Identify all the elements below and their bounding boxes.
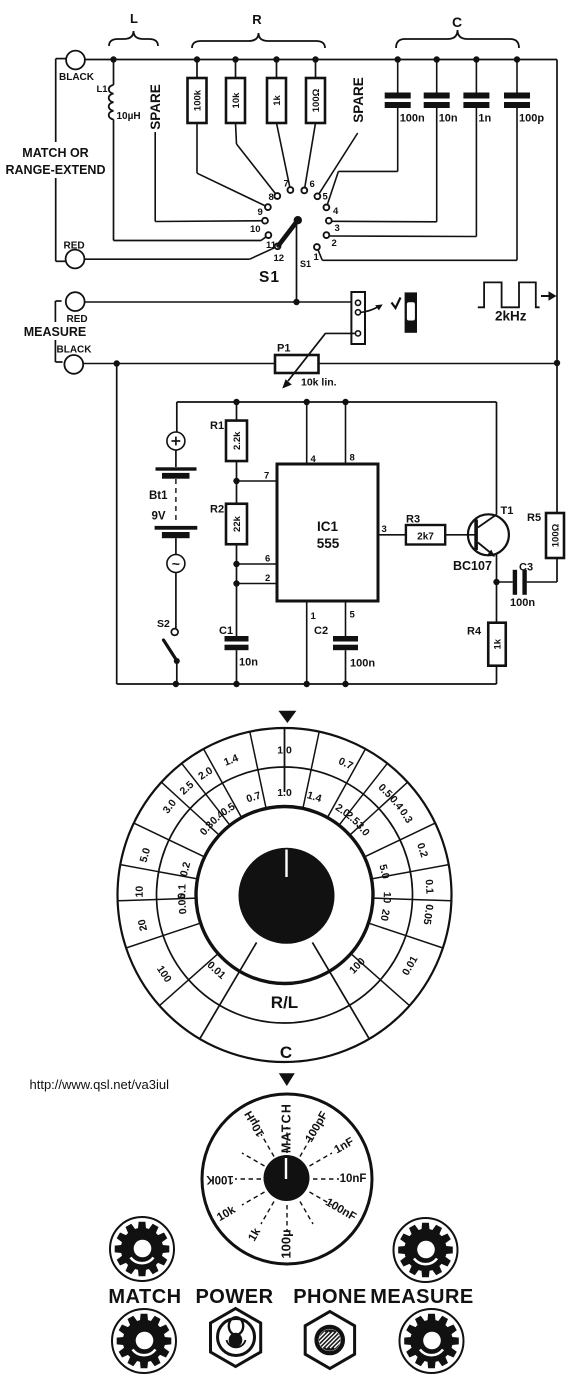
wire top bus <box>85 59 557 61</box>
wire spare-right to contact 5 <box>317 133 357 196</box>
svg-text:SPARE: SPARE <box>148 84 163 130</box>
wire pin 8 <box>342 399 348 405</box>
svg-text:RED: RED <box>67 314 88 325</box>
svg-text:10: 10 <box>250 224 261 235</box>
wire spare-left to contact 10 <box>154 132 156 217</box>
svg-text:10nF: 10nF <box>340 1173 367 1185</box>
node emitter junction <box>493 579 499 585</box>
node R 1k top <box>273 56 279 62</box>
svg-text:R4: R4 <box>467 626 482 638</box>
svg-text:2kHz: 2kHz <box>495 309 527 324</box>
wire 10k to contact 8 <box>236 123 237 144</box>
wire 1k to contact 7 <box>277 123 291 190</box>
svg-text:8: 8 <box>269 192 274 203</box>
svg-text:P1: P1 <box>277 343 290 355</box>
wire pin 4 <box>304 399 310 405</box>
node pin7 junction <box>233 478 239 484</box>
wire 100k to contact 9 <box>196 123 198 173</box>
dial inner circle <box>196 807 373 984</box>
battery cell 2 <box>155 526 198 530</box>
wire pin 3 <box>378 534 406 536</box>
op-amp IC1 555 box <box>277 464 378 601</box>
wire 100p to contact 1 <box>516 108 518 260</box>
svg-text:2.2k: 2.2k <box>232 431 243 450</box>
battery plus terminal <box>167 432 185 450</box>
svg-text:7: 7 <box>284 179 289 190</box>
knob gear top-right (MEASURE) <box>394 1218 458 1282</box>
small dial pointer arrow <box>279 1073 295 1086</box>
svg-text:L: L <box>130 11 138 26</box>
battery Bt1 cell 1 <box>175 450 177 467</box>
wire vcc to battery <box>176 402 178 432</box>
node R 10k top <box>232 56 238 62</box>
svg-text:S1: S1 <box>300 259 311 269</box>
capacitor C 10n <box>436 60 438 93</box>
svg-text:C3: C3 <box>519 562 533 574</box>
svg-text:1.0: 1.0 <box>277 744 292 756</box>
svg-text:10n: 10n <box>439 113 458 125</box>
bracket match <box>56 58 66 60</box>
node L1 top <box>110 56 116 62</box>
phone jack nut (PHONE) <box>305 1312 354 1369</box>
S1 contact 8 <box>274 193 280 199</box>
svg-text:S2: S2 <box>157 618 170 630</box>
svg-text:20: 20 <box>378 908 392 922</box>
knob gear bottom (MEASURE) <box>400 1309 464 1373</box>
dial knob tick <box>285 850 287 878</box>
bracket measure <box>55 300 61 302</box>
wire black-measure to P1 <box>83 363 275 365</box>
wire S1 wiper down <box>296 222 298 302</box>
svg-text:BLACK: BLACK <box>57 345 93 356</box>
jack tick mark <box>392 298 401 309</box>
terminal RED (match) <box>66 250 85 269</box>
S1 contact 2 <box>324 232 330 238</box>
wire R5 to C3 <box>556 558 558 582</box>
S1 contact 3 <box>326 218 332 224</box>
svg-text:R: R <box>252 12 262 27</box>
svg-text:5: 5 <box>350 610 356 621</box>
node R 100ohm top <box>312 56 318 62</box>
terminal BLACK (measure) <box>64 355 83 374</box>
svg-text:2k7: 2k7 <box>417 532 434 543</box>
knob gear top-left (MATCH) <box>110 1217 174 1281</box>
wire pin 5 <box>345 601 347 636</box>
svg-text:R1: R1 <box>210 420 224 432</box>
svg-text:100Ω: 100Ω <box>311 88 322 112</box>
svg-text:~: ~ <box>172 556 180 572</box>
svg-text:C1: C1 <box>219 625 233 637</box>
resistor R 10k <box>226 78 245 123</box>
S1 contact 7 <box>288 187 294 193</box>
svg-text:1k: 1k <box>272 95 283 106</box>
wire R3 to base <box>445 534 474 536</box>
svg-text:100n: 100n <box>400 113 425 125</box>
svg-text:0.05: 0.05 <box>176 893 190 915</box>
svg-text:IC1: IC1 <box>317 519 339 534</box>
wire collector up <box>496 402 498 515</box>
jack socket body <box>351 292 365 344</box>
wire vcc bus <box>177 401 497 403</box>
svg-text:5: 5 <box>323 192 329 203</box>
capacitor C 100n <box>397 60 399 93</box>
svg-text:1.0: 1.0 <box>277 787 292 799</box>
svg-text:C2: C2 <box>314 625 328 637</box>
dial pointer arrow <box>278 711 296 723</box>
dial knob <box>239 848 335 944</box>
dial outer circle <box>118 728 452 1062</box>
wire R1-R2 <box>236 461 238 504</box>
svg-text:MATCH: MATCH <box>108 1286 181 1308</box>
svg-text:10: 10 <box>381 892 393 904</box>
capacitor C 1n <box>475 60 477 93</box>
brace C group <box>396 30 519 48</box>
jack contact bottom <box>355 331 360 336</box>
S1 wiper <box>294 216 302 224</box>
wire S2 to ground bus <box>176 661 178 684</box>
svg-text:100n: 100n <box>350 658 375 670</box>
toggle switch (POWER) <box>211 1309 261 1367</box>
node C 10n top <box>434 56 440 62</box>
svg-text:22k: 22k <box>232 515 243 532</box>
svg-text:RED: RED <box>64 241 85 252</box>
svg-text:100K: 100K <box>206 1173 234 1185</box>
S1 contact 6 <box>301 188 307 194</box>
svg-text:1: 1 <box>314 252 320 263</box>
svg-text:9V: 9V <box>152 511 166 523</box>
wire wiper to jack <box>326 332 356 334</box>
capacitor C3 <box>497 581 513 583</box>
svg-text:6: 6 <box>265 554 270 565</box>
small dial spokes <box>286 1127 288 1153</box>
svg-text:R2: R2 <box>210 504 224 516</box>
P1 wiper arrow <box>288 333 326 381</box>
svg-text:7: 7 <box>264 471 269 482</box>
resistor R 100k <box>188 78 207 123</box>
node lower-left branch <box>114 360 120 366</box>
jack plug (black) <box>405 292 417 332</box>
S1 contact 1 <box>314 244 320 250</box>
S1 contact 4 <box>324 205 330 211</box>
svg-text:2: 2 <box>332 238 337 249</box>
wire left border down <box>116 364 118 685</box>
svg-text:100n: 100n <box>510 597 535 609</box>
potentiometer P1 <box>275 355 319 373</box>
svg-text:http://www.qsl.net/va3iul: http://www.qsl.net/va3iul <box>30 1077 170 1092</box>
dial ring2 ticks <box>303 770 311 809</box>
output arrow <box>541 295 549 297</box>
node pin6 junction <box>233 561 239 567</box>
svg-text:6: 6 <box>310 179 315 190</box>
svg-text:4: 4 <box>333 206 339 217</box>
svg-text:100p: 100p <box>519 113 544 125</box>
svg-text:12: 12 <box>274 253 285 264</box>
wire R2 down <box>236 544 238 636</box>
wire red-measure to jack <box>85 301 352 303</box>
wire pin 7 <box>237 480 278 482</box>
dial ring1 ticks <box>311 732 319 770</box>
S1 contact 12 <box>275 243 281 249</box>
jack contact top <box>355 300 360 305</box>
svg-text:Bt1: Bt1 <box>149 490 168 502</box>
node P1 right / right-border junction <box>554 360 560 366</box>
wire source to S2 <box>175 573 177 629</box>
small dial circle <box>202 1094 372 1264</box>
svg-text:8: 8 <box>350 453 355 464</box>
small dial knob <box>264 1155 310 1201</box>
svg-text:1: 1 <box>311 611 317 622</box>
svg-text:T1: T1 <box>501 505 514 517</box>
resistor R 1k <box>267 78 286 123</box>
S1 contact 11 <box>266 232 272 238</box>
svg-text:555: 555 <box>317 536 340 551</box>
svg-text:4: 4 <box>311 454 317 465</box>
wire 1n to contact 2 <box>475 108 477 237</box>
svg-text:10k lin.: 10k lin. <box>301 377 337 389</box>
svg-text:MEASURE: MEASURE <box>370 1286 474 1308</box>
svg-text:10n: 10n <box>239 657 258 669</box>
dial middle circle <box>157 767 413 1023</box>
svg-text:BC107: BC107 <box>453 559 492 573</box>
knob gear bottom (MATCH) <box>112 1309 176 1373</box>
wire right border down <box>556 60 558 364</box>
2kHz square wave symbol <box>478 282 540 307</box>
wire 10n to contact 3 <box>436 108 438 222</box>
battery dashed link <box>175 479 177 524</box>
wire L1 to contact 11 <box>113 119 115 240</box>
wire emitter down <box>496 554 498 582</box>
svg-text:100Ω: 100Ω <box>550 523 561 547</box>
svg-text:PHONE: PHONE <box>293 1286 367 1308</box>
wire cell2 to source <box>175 538 177 554</box>
svg-text:10k: 10k <box>231 92 242 109</box>
svg-text:L1: L1 <box>97 84 109 95</box>
svg-text:C: C <box>452 14 462 30</box>
svg-text:SPARE: SPARE <box>351 77 366 123</box>
brace R group <box>192 33 325 48</box>
svg-text:BLACK: BLACK <box>59 72 95 83</box>
svg-text:3: 3 <box>382 524 387 535</box>
node pin2 junction <box>233 580 239 586</box>
node R 100k top <box>194 56 200 62</box>
node battery bus <box>173 681 179 687</box>
svg-text:RANGE-EXTEND: RANGE-EXTEND <box>5 163 105 177</box>
svg-text:3: 3 <box>335 223 340 234</box>
dial index tick <box>284 728 286 792</box>
svg-text:R/L: R/L <box>271 993 298 1012</box>
svg-text:100k: 100k <box>192 89 203 111</box>
node wiper/red junction <box>293 299 299 305</box>
node C 1n top <box>473 56 479 62</box>
jack switch arrow <box>360 307 379 313</box>
svg-text:POWER: POWER <box>195 1286 273 1308</box>
svg-text:10: 10 <box>134 886 146 898</box>
node C 100p top <box>514 56 520 62</box>
capacitor C 100p <box>516 60 518 93</box>
transistor T1 BC107 <box>468 514 509 555</box>
node C 100n top <box>395 56 401 62</box>
jack contact mid <box>355 310 360 315</box>
S1 contact 5 <box>315 193 321 199</box>
svg-text:MEASURE: MEASURE <box>24 325 87 339</box>
wire P1 right <box>319 363 558 365</box>
wire red-match to S1 contact 12 <box>84 258 249 260</box>
svg-text:R5: R5 <box>527 512 541 524</box>
terminal RED (measure) <box>66 292 85 311</box>
wire 100ohm to contact 6 <box>304 123 315 190</box>
dial C-sector lines <box>312 942 369 1039</box>
inductor L1 <box>113 60 115 86</box>
svg-text:S1: S1 <box>259 269 280 286</box>
ac source symbol <box>167 555 185 573</box>
wire pin 6 <box>237 563 278 565</box>
svg-text:1n: 1n <box>478 113 491 125</box>
terminal BLACK (match) <box>66 51 85 70</box>
svg-text:C: C <box>280 1043 292 1062</box>
wire 100n to contact 4 <box>397 108 399 171</box>
svg-text:9: 9 <box>258 207 263 218</box>
S1 contact 10 <box>262 218 268 224</box>
wire pin 1 <box>306 601 308 684</box>
S1 contact 9 <box>265 204 271 210</box>
resistor R 100ohm <box>306 78 325 123</box>
wire ground bus <box>117 683 497 685</box>
brace L group <box>109 31 158 46</box>
svg-text:100µ: 100µ <box>278 1229 293 1258</box>
node vcc R1 <box>233 399 239 405</box>
small dial knob tick <box>285 1158 287 1179</box>
svg-text:MATCH: MATCH <box>279 1103 293 1153</box>
svg-text:2: 2 <box>265 573 270 584</box>
svg-text:R3: R3 <box>406 514 420 526</box>
svg-text:MATCH OR: MATCH OR <box>22 146 88 160</box>
svg-text:1k: 1k <box>492 638 503 649</box>
svg-text:10µH: 10µH <box>117 111 141 122</box>
wire pin 2 <box>237 583 278 585</box>
svg-text:0.1: 0.1 <box>423 879 436 894</box>
node C1 bus <box>233 681 239 687</box>
